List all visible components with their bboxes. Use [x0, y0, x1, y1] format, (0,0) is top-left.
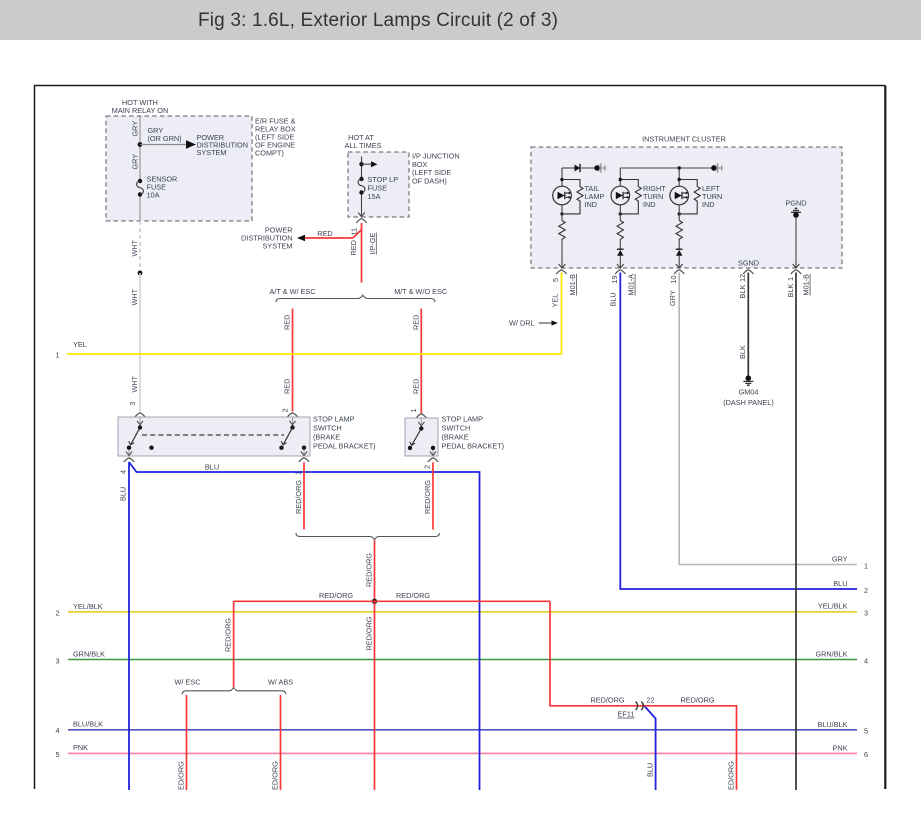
svg-text:3: 3 [864, 609, 868, 618]
svg-text:SWITCH: SWITCH [313, 423, 342, 432]
resistor R2 (tail lamp series) + wire to pin 5 [559, 205, 566, 268]
bus wire PNK [56, 743, 869, 759]
svg-text:PEDAL BRACKET): PEDAL BRACKET) [442, 442, 505, 451]
bus wire GRN/BLK [56, 650, 869, 666]
wire RED/ORG left leg to W/ESC brace [223, 601, 233, 687]
node: junction dot + branch arrow in I/P box [359, 161, 377, 167]
mechanical linkage (dashed) [142, 434, 284, 436]
svg-text:I/P-GE: I/P-GE [368, 232, 377, 254]
svg-text:12: 12 [738, 274, 747, 282]
wire RED drop (M/T) to switch 2 pin 1 [409, 309, 421, 414]
pin 2 exit (switch box 2) [422, 450, 438, 469]
node: terminal dot + splice symbol (tail feed) [594, 163, 605, 172]
arrow to power distribution system (red feed) [241, 226, 333, 251]
title bar [0, 0, 921, 40]
svg-text:ED/ORG: ED/ORG [271, 761, 280, 790]
resistor R4 + diode D2 (right turn series) [617, 205, 624, 268]
svg-text:BLU/BLK: BLU/BLK [73, 719, 103, 728]
svg-text:OF DASH): OF DASH) [412, 177, 447, 186]
svg-text:2: 2 [56, 609, 60, 618]
wire: turn ind top feed [620, 166, 714, 186]
bus wire YEL/BLK [56, 602, 869, 618]
wire RED/ORG center drop to bottom [364, 601, 374, 790]
svg-text:YEL: YEL [551, 294, 560, 308]
svg-text:INSTRUMENT CLUSTER: INSTRUMENT CLUSTER [642, 135, 726, 144]
svg-text:RED/ORG: RED/ORG [364, 616, 373, 650]
svg-text:YEL/BLK: YEL/BLK [73, 602, 103, 611]
svg-text:IND: IND [585, 200, 598, 209]
wire: tail lamp ind top feed [562, 168, 597, 186]
pin 10 connector cup (cluster) [669, 270, 684, 284]
svg-text:(BRAKE: (BRAKE [313, 433, 340, 442]
svg-text:2: 2 [280, 408, 289, 412]
instrument cluster box [531, 135, 842, 269]
node: junction dot on GRY wire [138, 142, 143, 147]
svg-text:GRY: GRY [131, 154, 140, 170]
pin 1 exit (switch box 1) [293, 450, 309, 475]
svg-text:M01-B: M01-B [802, 274, 811, 296]
svg-text:GRY: GRY [668, 290, 677, 306]
E/R fuse & relay box (HOT WITH MAIN RELAY ON) [106, 98, 296, 221]
svg-text:GRN/BLK: GRN/BLK [815, 650, 847, 659]
svg-text:W/ ABS: W/ ABS [268, 678, 293, 687]
svg-text:RED/ORG: RED/ORG [319, 591, 353, 600]
svg-text:SYSTEM: SYSTEM [262, 242, 292, 251]
stop lamp switch box 2 [405, 414, 504, 456]
svg-text:WHT: WHT [130, 375, 139, 392]
pin 1 connector cup (cluster) [786, 270, 811, 296]
bus wire BLU/BLK [56, 719, 869, 735]
wire WHT (solid segment to stop lamp switch pin 3) [128, 273, 140, 412]
svg-text:M/T & W/O ESC: M/T & W/O ESC [394, 287, 447, 296]
wire RED/ORG trunk to junction [364, 541, 374, 602]
svg-text:M01-B: M01-B [568, 274, 577, 296]
svg-text:5: 5 [56, 750, 60, 759]
wire YEL from cluster pin 5 [56, 273, 562, 360]
svg-text:RED: RED [283, 315, 292, 330]
resistor R5 (left turn parallel) [678, 178, 701, 216]
svg-text:BLU: BLU [119, 487, 128, 501]
fuse: SENSOR FUSE 10A [137, 175, 178, 200]
svg-text:COMPT): COMPT) [255, 149, 284, 158]
in-line connector EF11 pin 22 [618, 696, 655, 719]
svg-text:GM04: GM04 [739, 388, 759, 397]
pin 4 exit (switch box 1) [118, 450, 134, 474]
svg-text:1: 1 [786, 277, 795, 281]
pin 5 connector cup (cluster) [551, 270, 577, 296]
stop lamp switch box 1 [118, 414, 376, 456]
resistor R3 (right turn parallel) [619, 178, 642, 216]
wire BLU from EF11 to bottom [645, 707, 656, 791]
brace joining stop lamp feeds [296, 533, 439, 540]
svg-text:IND: IND [643, 200, 656, 209]
wire BLK from cluster pin 1 [786, 273, 796, 791]
svg-text:5: 5 [551, 278, 560, 282]
svg-text:YEL: YEL [73, 340, 87, 349]
drawing frame border [35, 86, 886, 790]
svg-text:SYSTEM: SYSTEM [197, 148, 227, 157]
switch S1a contacts (left pole) [127, 417, 154, 450]
svg-text:GRY: GRY [832, 555, 848, 564]
wire RED/ORG (W/ ESC drop) [177, 695, 187, 790]
svg-text:RED: RED [411, 315, 420, 330]
svg-text:W/ DRL: W/ DRL [509, 318, 535, 327]
W/ DRL branch arrow [509, 318, 558, 327]
svg-text:PEDAL BRACKET): PEDAL BRACKET) [313, 442, 376, 451]
wire BLU from cluster pin 19 [609, 273, 868, 596]
svg-text:MAIN RELAY ON: MAIN RELAY ON [112, 106, 169, 115]
svg-text:BLU: BLU [646, 763, 655, 777]
wire inside I/P box [361, 157, 363, 216]
svg-text:RED: RED [349, 240, 358, 255]
svg-text:GRN/BLK: GRN/BLK [73, 650, 105, 659]
pin 19 connector cup (cluster) [610, 270, 636, 296]
svg-text:4: 4 [56, 726, 60, 735]
svg-text:SGND: SGND [738, 259, 759, 268]
svg-text:WHT: WHT [130, 288, 139, 305]
svg-text:RED/ORG: RED/ORG [364, 553, 373, 587]
svg-text:A/T & W/ ESC: A/T & W/ ESC [269, 287, 315, 296]
svg-text:(OR GRN): (OR GRN) [148, 134, 182, 143]
svg-text:10: 10 [669, 275, 678, 283]
svg-text:BLU: BLU [609, 292, 618, 306]
svg-text:PNK: PNK [73, 743, 88, 752]
svg-text:RED/ORG: RED/ORG [680, 696, 714, 705]
svg-text:2: 2 [864, 586, 868, 595]
svg-text:RED/ORG: RED/ORG [590, 696, 624, 705]
svg-text:RED/ORG: RED/ORG [294, 480, 303, 514]
svg-text:BLU: BLU [205, 463, 219, 472]
svg-text:2: 2 [422, 465, 431, 469]
pin 12 connector cup (cluster) [738, 270, 754, 282]
svg-text:RED: RED [317, 229, 332, 238]
svg-text:RED/ORG: RED/ORG [396, 591, 430, 600]
svg-text:10A: 10A [147, 191, 160, 200]
brace A/T & W/ ESC | M/T & W/O ESC [269, 287, 447, 302]
svg-text:BLK: BLK [738, 345, 747, 359]
svg-text:1: 1 [864, 562, 868, 571]
wire RED/ORG horizontal distribution [234, 591, 550, 602]
svg-text:BLU/BLK: BLU/BLK [817, 720, 847, 729]
svg-text:3: 3 [56, 657, 60, 666]
wire BLU from switch pin 4 [119, 462, 480, 790]
LED lamp U1 TAIL LAMP IND [553, 184, 605, 209]
pin 2 connector cup (switch box 1 top) [287, 413, 297, 417]
svg-text:RED/ORG: RED/ORG [223, 618, 232, 652]
diode D1 (tail lamp feed) [575, 164, 581, 172]
ground GM04 (dash panel) [723, 375, 774, 407]
svg-text:ALL TIMES: ALL TIMES [345, 141, 382, 150]
node: RED/ORG junction dot [372, 599, 377, 604]
svg-text:PGND: PGND [785, 199, 806, 208]
resistor R6 + diode D3 (left turn series) [676, 205, 683, 268]
wire RED drop (A/T) to switch pin 2 [280, 309, 292, 413]
svg-text:GRY: GRY [131, 121, 140, 137]
svg-text:BLK: BLK [738, 285, 747, 299]
svg-text:PNK: PNK [832, 743, 847, 752]
svg-text:RED: RED [411, 379, 420, 394]
wire GRY inside E/R box [131, 117, 182, 222]
svg-text:EF11: EF11 [618, 710, 635, 719]
svg-text:ED/ORG: ED/ORG [177, 761, 186, 790]
wire RED from I/P-GE pin 11 [299, 223, 362, 283]
switch S2 contacts [408, 418, 435, 450]
switch S1b contacts (right pole) [279, 417, 306, 450]
node: terminal dot + splice symbol (turn feed) [711, 163, 722, 172]
resistor R1 (tail lamp ind parallel) [560, 178, 583, 216]
svg-text:4: 4 [118, 470, 127, 474]
wire RED/ORG (W/ ABS drop) [271, 695, 281, 790]
wire RED/ORG from switch 1 pin 1 [294, 462, 304, 529]
arrow to power distribution system [140, 133, 248, 157]
svg-text:BLU: BLU [833, 579, 847, 588]
pin 1 connector cup (switch box 2 top) [416, 414, 426, 418]
svg-text:Fig 3: 1.6L, Exterior Lamps Ci: Fig 3: 1.6L, Exterior Lamps Circuit (2 o… [198, 10, 558, 31]
wire WHT (dashed segment below E/R box) [130, 221, 140, 273]
svg-text:ED/ORG: ED/ORG [727, 761, 736, 790]
fuse: STOP LP FUSE 15A [358, 175, 398, 201]
wire GRY from cluster pin 10 [668, 273, 868, 571]
svg-text:15A: 15A [368, 192, 381, 201]
wire RED/ORG right leg to EF11 [550, 601, 737, 790]
pin 3 connector cup (switch box 1 top) [135, 413, 145, 417]
svg-text:IND: IND [702, 200, 715, 209]
svg-text:SWITCH: SWITCH [442, 423, 471, 432]
I/P junction box (HOT AT ALL TIMES) [345, 133, 460, 217]
svg-text:RED: RED [283, 379, 292, 394]
net SGND label [738, 259, 759, 268]
svg-text:STOP LAMP: STOP LAMP [442, 414, 484, 423]
svg-text:M01-A: M01-A [627, 274, 636, 296]
svg-text:RED/ORG: RED/ORG [423, 480, 432, 514]
LED lamp U3 LEFT TURN IND [670, 184, 722, 209]
svg-text:STOP LAMP: STOP LAMP [313, 414, 355, 423]
node: splice dot on WHT wire [138, 271, 143, 276]
svg-text:6: 6 [864, 750, 868, 759]
brace W/ ESC | W/ ABS [175, 678, 294, 695]
svg-text:19: 19 [610, 275, 619, 283]
wire BLK from cluster pin 12 to GM04 [738, 273, 748, 376]
svg-text:1: 1 [409, 408, 418, 412]
svg-text:(BRAKE: (BRAKE [442, 433, 469, 442]
ground PGND [785, 199, 806, 269]
svg-text:4: 4 [864, 657, 868, 666]
LED lamp U2 RIGHT TURN IND [611, 184, 666, 209]
svg-text:5: 5 [864, 727, 868, 736]
svg-text:BLK: BLK [786, 284, 795, 298]
svg-text:22: 22 [647, 696, 655, 705]
svg-text:3: 3 [128, 402, 137, 406]
svg-text:W/ ESC: W/ ESC [175, 678, 201, 687]
svg-text:(DASH PANEL): (DASH PANEL) [723, 398, 774, 407]
pin 11 arrow + connector cup (I/P box bottom) [350, 213, 377, 255]
svg-text:WHT: WHT [130, 239, 139, 256]
wire RED/ORG from switch 2 pin 2 [423, 462, 433, 529]
svg-text:YEL/BLK: YEL/BLK [818, 602, 848, 611]
svg-text:1: 1 [56, 351, 60, 360]
